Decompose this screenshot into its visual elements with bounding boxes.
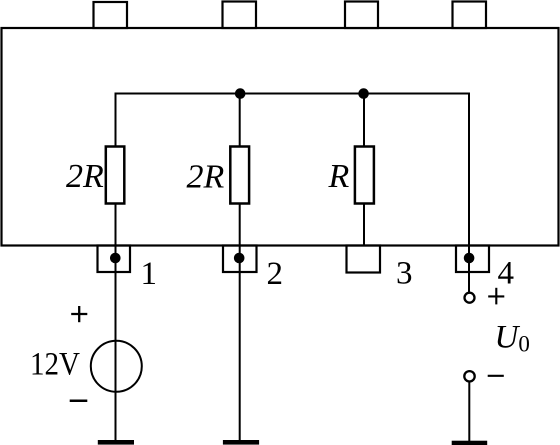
wire bus to pin 4 [468, 93, 470, 293]
pin 2 square [223, 246, 257, 273]
tab 3 (top) [345, 2, 378, 29]
junction dot at bus / R3 [358, 88, 369, 99]
svg-text:1: 1 [141, 256, 158, 292]
wire R1 to battery to ground [115, 203, 117, 441]
resistor R (right) [355, 147, 374, 204]
output terminal + (open circle) [465, 293, 475, 303]
resistor 2R (left) [106, 147, 125, 204]
pin 4 junction dot [464, 253, 475, 264]
tab 1 (top) [94, 2, 128, 28]
wire R3 to pin 3 [363, 203, 365, 246]
wire output - to ground [468, 382, 470, 442]
tab 4 (top) [453, 2, 487, 29]
output terminal - (open circle) [464, 371, 474, 381]
ground (output) [452, 441, 488, 445]
voltage source circle 12V [91, 341, 142, 392]
output plus sign [488, 288, 504, 305]
battery plus sign [71, 306, 87, 322]
svg-text:R: R [328, 158, 350, 195]
svg-text:4: 4 [498, 256, 515, 292]
wire bus to resistor R1 [115, 93, 117, 148]
pin 1 square [98, 246, 131, 273]
pin 4 square [456, 246, 489, 273]
IC package box U1 [2, 28, 559, 246]
wire bus to resistor R3 [363, 94, 365, 148]
output minus sign [488, 375, 504, 377]
wire bus to resistor R2 [239, 94, 241, 148]
tab 2 (top) [223, 2, 257, 29]
svg-text:2R: 2R [66, 158, 104, 195]
wire R2 to ground [239, 203, 241, 441]
pin 3 square [347, 246, 381, 273]
pin 1 junction dot [110, 253, 121, 264]
svg-text:12V: 12V [30, 347, 80, 383]
bus wire (internal horizontal net) [115, 93, 470, 95]
pin 2 junction dot [234, 253, 245, 264]
ground (battery) [98, 440, 134, 445]
resistor 2R (middle) [230, 147, 249, 204]
svg-text:3: 3 [396, 256, 413, 292]
ground (pin 2) [223, 440, 259, 445]
junction dot at bus / R2 [235, 88, 246, 99]
svg-text:2R: 2R [187, 158, 225, 195]
battery minus sign [70, 400, 88, 403]
svg-text:2: 2 [267, 256, 284, 292]
